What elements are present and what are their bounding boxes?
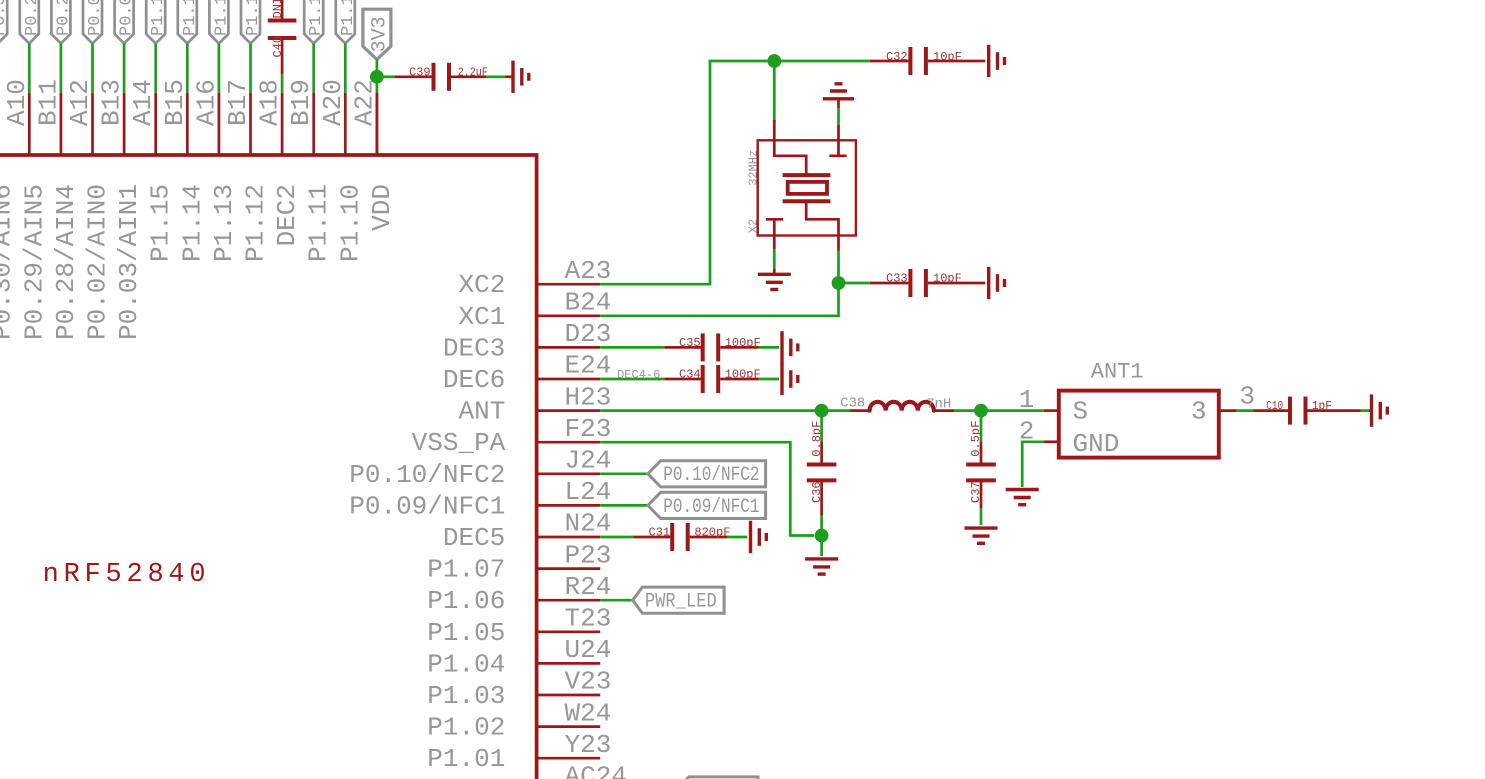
- svg-text:P1.13: P1.13: [212, 0, 231, 36]
- svg-text:B17: B17: [223, 79, 253, 126]
- svg-text:A20: A20: [318, 79, 348, 126]
- svg-text:2.2uF: 2.2uF: [458, 66, 488, 80]
- svg-text:32MHz: 32MHz: [747, 150, 761, 186]
- svg-text:ANT1: ANT1: [1091, 360, 1144, 385]
- svg-text:J24: J24: [565, 446, 612, 476]
- svg-text:B13: B13: [97, 79, 127, 126]
- svg-text:10pF: 10pF: [933, 272, 962, 286]
- svg-text:A14: A14: [128, 79, 158, 126]
- svg-text:P1.02: P1.02: [427, 713, 505, 743]
- svg-text:C34: C34: [679, 368, 701, 382]
- svg-text:DEC6: DEC6: [443, 365, 505, 395]
- svg-text:P0.10/NFC2: P0.10/NFC2: [349, 460, 505, 490]
- svg-text:0.8pF: 0.8pF: [810, 421, 824, 457]
- svg-text:P0.02/AIN0: P0.02/AIN0: [86, 0, 105, 36]
- svg-text:A12: A12: [65, 79, 95, 126]
- svg-text:VDD: VDD: [367, 184, 397, 231]
- svg-text:P0.30/AIN6: P0.30/AIN6: [0, 184, 18, 340]
- svg-text:P1.12: P1.12: [244, 0, 263, 36]
- svg-text:P0.03/AIN1: P0.03/AIN1: [118, 0, 137, 36]
- svg-text:P1.06: P1.06: [427, 586, 505, 616]
- svg-text:T23: T23: [565, 604, 612, 634]
- svg-text:C10: C10: [1266, 399, 1283, 413]
- svg-text:W24: W24: [565, 698, 612, 728]
- svg-text:C37: C37: [969, 481, 983, 503]
- svg-text:DNI: DNI: [271, 0, 285, 19]
- svg-text:P1.14: P1.14: [181, 0, 200, 36]
- svg-text:XC1: XC1: [458, 302, 505, 332]
- svg-text:P1.07: P1.07: [427, 555, 505, 585]
- svg-text:P1.10: P1.10: [335, 184, 365, 262]
- svg-text:X2: X2: [747, 219, 761, 233]
- svg-text:DEC5: DEC5: [443, 523, 505, 553]
- svg-text:AC24: AC24: [565, 762, 627, 779]
- svg-text:U24: U24: [565, 635, 612, 665]
- svg-text:A10: A10: [2, 79, 32, 126]
- svg-text:P0.02/AIN0: P0.02/AIN0: [83, 184, 113, 340]
- svg-text:3: 3: [1239, 382, 1255, 412]
- svg-text:GND: GND: [1073, 429, 1120, 459]
- svg-text:A23: A23: [565, 256, 612, 286]
- svg-text:C40: C40: [271, 36, 285, 58]
- svg-text:3: 3: [1191, 396, 1207, 426]
- svg-text:B11: B11: [33, 79, 63, 126]
- svg-text:P1.10: P1.10: [339, 0, 358, 36]
- svg-text:N24: N24: [565, 509, 612, 539]
- svg-text:P1.15: P1.15: [146, 184, 176, 262]
- svg-text:P0.30/AIN6: P0.30/AIN6: [0, 0, 10, 36]
- svg-text:3V3: 3V3: [369, 16, 392, 52]
- svg-text:C39: C39: [409, 66, 431, 80]
- svg-text:0.5pF: 0.5pF: [969, 421, 983, 457]
- svg-text:P1.03: P1.03: [427, 681, 505, 711]
- svg-text:C36: C36: [810, 481, 824, 503]
- svg-text:C31: C31: [649, 526, 671, 540]
- svg-text:P1.11: P1.11: [304, 184, 334, 262]
- svg-text:DEC3: DEC3: [443, 333, 505, 363]
- svg-text:P1.12: P1.12: [241, 184, 271, 262]
- svg-text:10pF: 10pF: [933, 50, 962, 64]
- svg-text:E24: E24: [565, 351, 612, 381]
- svg-text:P0.09/NFC1: P0.09/NFC1: [349, 491, 505, 521]
- svg-text:1pF: 1pF: [1312, 399, 1332, 413]
- svg-text:Y23: Y23: [565, 730, 612, 760]
- svg-text:XC2: XC2: [458, 270, 505, 300]
- svg-text:P0.28/AIN4: P0.28/AIN4: [51, 184, 81, 340]
- svg-text:F23: F23: [565, 414, 612, 444]
- svg-text:P1.13: P1.13: [209, 184, 239, 262]
- svg-text:C35: C35: [679, 336, 701, 350]
- svg-text:DEC4-6: DEC4-6: [617, 368, 660, 382]
- svg-text:B24: B24: [565, 288, 612, 318]
- svg-text:nRF52840: nRF52840: [43, 560, 206, 590]
- svg-text:P1.15: P1.15: [149, 0, 168, 36]
- svg-text:P23: P23: [565, 540, 612, 570]
- svg-text:A18: A18: [255, 79, 285, 126]
- svg-text:P1.11: P1.11: [307, 0, 326, 36]
- svg-text:VSS_PA: VSS_PA: [412, 428, 506, 458]
- svg-text:100pF: 100pF: [725, 336, 761, 350]
- svg-text:DEC2: DEC2: [272, 184, 302, 246]
- svg-text:H23: H23: [565, 382, 612, 412]
- svg-text:P1.01: P1.01: [427, 744, 505, 774]
- svg-text:ANT: ANT: [458, 397, 505, 427]
- svg-text:B19: B19: [286, 79, 316, 126]
- svg-text:S: S: [1073, 396, 1089, 426]
- svg-text:P1.14: P1.14: [177, 184, 207, 262]
- svg-text:V23: V23: [565, 667, 612, 697]
- svg-text:P1.04: P1.04: [427, 649, 505, 679]
- svg-text:C33: C33: [886, 272, 908, 286]
- svg-text:P0.10/NFC2: P0.10/NFC2: [663, 464, 759, 487]
- svg-text:B15: B15: [160, 79, 190, 126]
- svg-text:D23: D23: [565, 319, 612, 349]
- svg-text:100pF: 100pF: [725, 368, 761, 382]
- svg-text:PWR_LED: PWR_LED: [645, 591, 717, 614]
- svg-text:P0.29/AIN5: P0.29/AIN5: [23, 0, 42, 36]
- svg-text:P0.29/AIN5: P0.29/AIN5: [19, 184, 49, 340]
- svg-text:P0.09/NFC1: P0.09/NFC1: [663, 496, 759, 519]
- svg-text:820pF: 820pF: [694, 526, 730, 540]
- svg-text:P0.03/AIN1: P0.03/AIN1: [114, 184, 144, 340]
- svg-text:P0.28/AIN4: P0.28/AIN4: [54, 0, 73, 36]
- svg-text:C32: C32: [886, 50, 908, 64]
- svg-text:1: 1: [1019, 385, 1035, 415]
- svg-text:A22: A22: [349, 79, 379, 126]
- svg-text:L24: L24: [565, 477, 612, 507]
- svg-text:A16: A16: [191, 79, 221, 126]
- svg-text:P1.05: P1.05: [427, 618, 505, 648]
- svg-text:R24: R24: [565, 572, 612, 602]
